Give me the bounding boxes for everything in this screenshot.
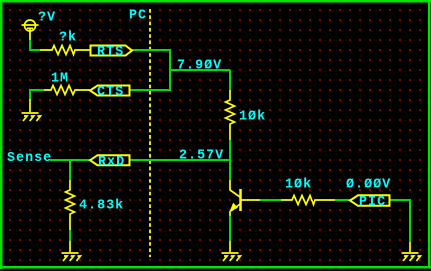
svg-text:Ø.ØØV: Ø.ØØV: [346, 177, 391, 192]
svg-text:PIC: PIC: [359, 195, 386, 210]
svg-text:Sense: Sense: [7, 151, 52, 166]
svg-text:?V: ?V: [38, 10, 56, 25]
svg-text:1Øk: 1Øk: [285, 177, 312, 192]
svg-text:RTS: RTS: [97, 45, 124, 60]
svg-text:1Øk: 1Øk: [239, 109, 266, 124]
svg-text:1M: 1M: [51, 71, 69, 86]
svg-text:2.57V: 2.57V: [179, 148, 224, 163]
svg-text:7.9ØV: 7.9ØV: [177, 58, 222, 73]
svg-text:RxD: RxD: [98, 155, 125, 170]
svg-text:4.83k: 4.83k: [79, 198, 124, 213]
svg-text:PC: PC: [129, 8, 147, 23]
svg-text:CTS: CTS: [97, 85, 124, 100]
svg-text:?k: ?k: [59, 30, 77, 45]
